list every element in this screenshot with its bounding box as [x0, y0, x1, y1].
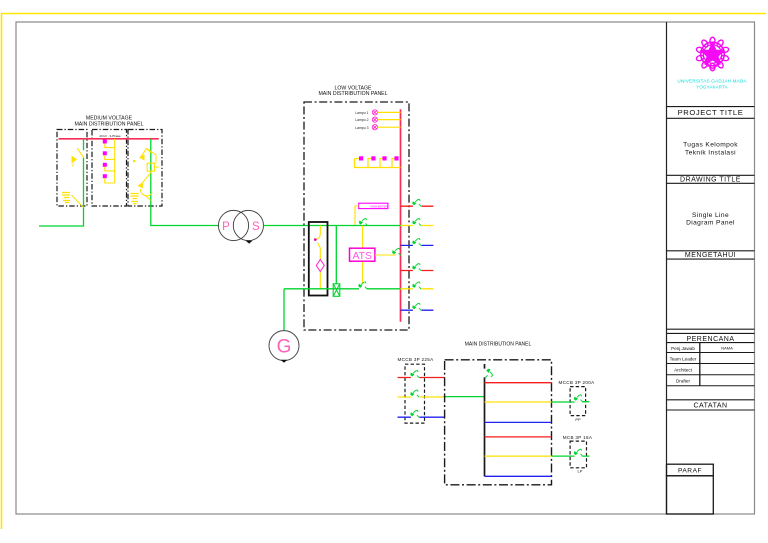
- lamp 3: [372, 125, 377, 130]
- svg-text:G: G: [277, 336, 292, 357]
- svg-text:MCCB 3P 200A: MCCB 3P 200A: [559, 380, 596, 385]
- breaker LP: [574, 449, 583, 456]
- svg-text:Lampu 2: Lampu 2: [355, 118, 368, 122]
- CT glyph cubicle1: [62, 193, 70, 198]
- wire: outgoing green drop cubicle3: [151, 139, 219, 226]
- wire: incoming T phase: [398, 416, 445, 418]
- mdp feeder 2 yellow: [485, 401, 552, 403]
- wire: ATS output to busbar: [375, 254, 396, 256]
- mdp feeder 6 blue: [485, 475, 552, 477]
- feeder 6 blue: [401, 309, 434, 311]
- breaker on line 1: [359, 219, 368, 226]
- LV panel enclosure: [304, 102, 409, 330]
- svg-text:20 kV , 3-Phase: 20 kV , 3-Phase: [99, 134, 121, 138]
- ACB cubicle box: [309, 222, 328, 296]
- feeder 5 yellow: [401, 288, 434, 290]
- feeder 3 blue: [401, 244, 434, 246]
- feeder 2 breaker: [412, 219, 421, 226]
- MDP black busbar: [484, 364, 486, 476]
- ACB diamond: [316, 260, 324, 272]
- feeder 1 breaker: [412, 199, 421, 206]
- wire: lamp 2 to busbar: [378, 119, 401, 121]
- breaker box cubicle3: [147, 163, 154, 171]
- svg-text:PP: PP: [575, 417, 581, 422]
- svg-text:CATATAN: CATATAN: [693, 403, 727, 410]
- svg-text:S: S: [252, 221, 260, 233]
- svg-text:Architect: Architect: [674, 367, 693, 372]
- ATS box: [350, 248, 375, 261]
- svg-text:MAIN DISTRIBUTION PANEL: MAIN DISTRIBUTION PANEL: [465, 341, 532, 347]
- svg-text:KWH.METER: KWH.METER: [370, 205, 387, 209]
- drawout arc cubicle3: [140, 189, 152, 196]
- mdp feeder 3 blue: [485, 421, 552, 423]
- svg-text:Lampu 1: Lampu 1: [355, 111, 368, 115]
- svg-text:Drafter: Drafter: [676, 378, 691, 383]
- control fuse squares: [359, 156, 399, 160]
- perencana table: [667, 343, 755, 386]
- generator G circle: [269, 331, 299, 361]
- ground symbol cubicle3: [131, 194, 139, 199]
- feeder 1 red: [401, 205, 434, 207]
- wire: incoming R phase: [398, 377, 445, 379]
- mdp feeder 5 yellow: [485, 455, 552, 457]
- svg-text:UNIVERSITAS GADJAH MADA: UNIVERSITAS GADJAH MADA: [677, 79, 747, 84]
- svg-text:DRAWING TITLE: DRAWING TITLE: [680, 176, 741, 183]
- svg-text:Team Leader: Team Leader: [670, 356, 697, 361]
- wire: LV main line 1: [304, 225, 401, 227]
- svg-text:P: P: [222, 221, 230, 233]
- MV cubicle 2 (metering): [92, 130, 127, 207]
- breaker T phase: [410, 410, 419, 417]
- svg-text:PARAF: PARAF: [678, 468, 702, 475]
- aux contact dot: [133, 160, 135, 162]
- lamp 1: [372, 110, 377, 115]
- LV red busbar: [400, 109, 402, 321]
- MCCB 200A box: [570, 387, 586, 416]
- svg-text:Tugas Kelompok: Tugas Kelompok: [683, 141, 738, 148]
- PARAF box: [667, 464, 714, 514]
- wire: incoming S phase (yellow then green): [398, 396, 444, 398]
- LBS arrow cubicle3: [139, 155, 145, 161]
- VT fuse ladder wiring: [105, 139, 115, 183]
- svg-text:LP: LP: [578, 469, 583, 474]
- feeder 4 red: [401, 270, 434, 272]
- MCB 16A box: [570, 441, 586, 468]
- svg-text:Diagram Panel: Diagram Panel: [686, 219, 735, 226]
- svg-text:MAIN DISTRIBUTION PANEL: MAIN DISTRIBUTION PANEL: [74, 122, 143, 128]
- MCCB 225A box: [405, 364, 425, 423]
- mdp feeder 4 red: [485, 436, 552, 438]
- mdp feeder 1 red: [485, 382, 552, 384]
- LBS blade cubicle3: [140, 148, 146, 157]
- transformer ground: [246, 241, 253, 244]
- disconnect switch S1 arrow: [72, 156, 78, 164]
- kwh meter box: [359, 203, 388, 208]
- paper edge yellow top line: [1, 13, 766, 15]
- MV red busbar: [59, 138, 159, 140]
- ACB contact dot: [314, 238, 317, 241]
- wire: LV main line 2 (generator line): [284, 288, 401, 290]
- breaker at busbar from ATS: [392, 248, 401, 255]
- ACB yellow riser: [317, 226, 320, 290]
- busbar head breaker: [485, 369, 492, 378]
- svg-text:MENGETAHUI: MENGETAHUI: [685, 252, 736, 259]
- wire: lamp 3 to busbar: [378, 126, 401, 128]
- CATATAN header box: [667, 400, 755, 410]
- svg-text:PERENCANA: PERENCANA: [686, 336, 734, 343]
- wire: feeder to LP (green): [552, 455, 590, 457]
- wire: feeder to PP (green): [552, 401, 590, 403]
- lamp 2: [372, 117, 377, 122]
- svg-text:Lampu 3: Lampu 3: [355, 126, 368, 130]
- transformer T1 primary circle: [218, 210, 248, 240]
- breaker R phase: [410, 371, 419, 378]
- feeder 5 breaker: [412, 282, 421, 289]
- MENGETAHUI header box: [667, 251, 755, 259]
- title block divider: [666, 22, 668, 514]
- wire: lamp 1 to busbar: [378, 111, 401, 113]
- transformer T1 secondary circle: [233, 210, 263, 240]
- ACB contact arc: [317, 234, 321, 240]
- wire: drop to fuse box: [335, 226, 337, 284]
- svg-text:PROJECT TITLE: PROJECT TITLE: [678, 108, 744, 117]
- feeder 6 breaker: [412, 303, 421, 310]
- lower blade cubicle3: [142, 171, 152, 183]
- PERENCANA header box: [667, 329, 755, 342]
- svg-text:Single Line: Single Line: [692, 212, 729, 219]
- wire: meter tap: [355, 206, 359, 226]
- svg-text:MAIN DISTRIBUTION PANEL: MAIN DISTRIBUTION PANEL: [318, 91, 387, 97]
- paper edge yellow left line: [1, 14, 3, 530]
- DRAWING TITLE header box: [667, 175, 755, 183]
- svg-text:MCB 3P 16A: MCB 3P 16A: [563, 435, 593, 440]
- VT fuse ladder: magenta fuse squares: [103, 140, 107, 179]
- fuse box (X): [333, 284, 340, 297]
- svg-text:Teknik Instalasi: Teknik Instalasi: [685, 150, 736, 157]
- svg-text:Penj.Jawab: Penj.Jawab: [671, 346, 695, 351]
- logo UGM emblem: [696, 37, 730, 71]
- svg-text:ATS: ATS: [352, 251, 372, 262]
- control fuse comb wiring: [355, 159, 401, 168]
- earthing link cubicle1: [72, 195, 84, 208]
- PROJECT TITLE header box: [667, 107, 755, 119]
- feeder 3 breaker: [412, 239, 421, 246]
- generator ground: [281, 360, 288, 363]
- MV cubicle 1 (incoming): [57, 130, 87, 207]
- wire: transformer secondary to LV panel: [264, 225, 305, 227]
- wire: ATS riser yellow: [362, 226, 364, 285]
- feeder 4 breaker: [412, 264, 421, 271]
- svg-text:YOGYAKARTA: YOGYAKARTA: [696, 85, 728, 90]
- wire: generator riser: [283, 289, 285, 331]
- feeder 2 yellow: [401, 225, 434, 227]
- MV cubicle 3 (outgoing): [128, 130, 162, 207]
- breaker PP: [574, 395, 583, 402]
- breaker on line 2: [358, 282, 367, 289]
- wire: incoming green drop cubicle1: [39, 139, 84, 226]
- MDP enclosure: [445, 360, 552, 485]
- svg-text:NAMA: NAMA: [721, 346, 733, 351]
- svg-text:MCCB 3P 225A: MCCB 3P 225A: [398, 357, 435, 362]
- breaker S phase: [410, 390, 419, 397]
- disconnect switch S1 blade: [77, 148, 83, 157]
